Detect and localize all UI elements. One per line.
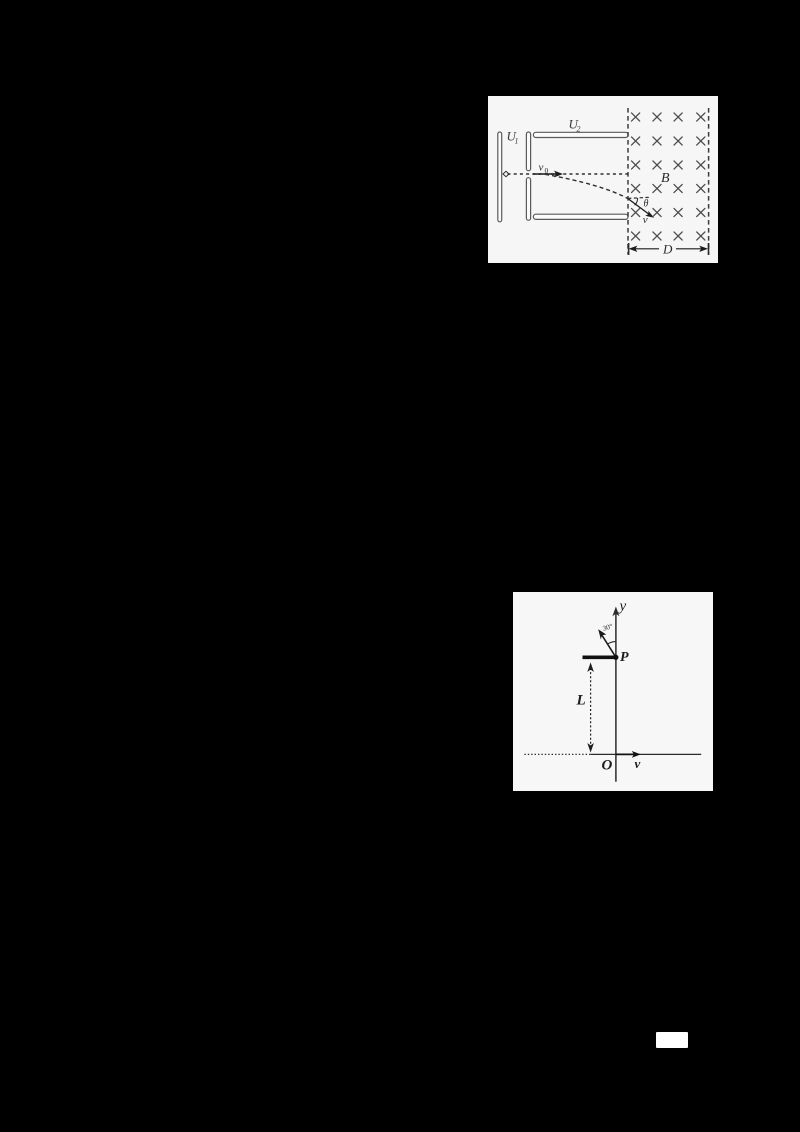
L dimension double arrow (dashed) [590,667,592,745]
angle arc 30deg [608,641,616,644]
svg-text:2: 2 [577,124,581,133]
svg-text:v: v [643,214,648,226]
v0 arrow [533,173,558,175]
horizontal reference tick at entry point [628,197,650,198]
velocity v arrow into field [628,199,650,215]
svg-text:v: v [634,756,640,771]
field region right dashed boundary [708,108,710,255]
figure 1: accelerating/deflecting plates with magnetic field region [488,96,718,263]
deflecting plate top (U2) [533,132,628,137]
angle arc theta [635,198,638,205]
velocity arrow at 30 degrees from y-axis [602,634,616,657]
svg-text:L: L [575,692,585,708]
B-field cross grid (4 cols x 6 rows) [631,113,704,240]
point P [613,654,618,659]
small white label box bottom-right [656,1032,688,1049]
field region left dashed boundary [627,108,629,255]
svg-text:P: P [620,650,629,665]
svg-text:B: B [661,171,670,186]
figure 2: projectile from platform P on y-axis [513,591,713,790]
dimension D double arrow [634,248,659,250]
dashed beam axis [508,173,629,175]
svg-text:O: O [601,757,612,773]
y-axis [615,612,617,782]
diamond source marker [503,171,509,176]
svg-text:D: D [662,242,673,257]
svg-text:1: 1 [515,136,519,145]
split plate lower segment [526,178,530,221]
v arrow on x-axis [616,753,635,755]
svg-text:v: v [539,161,544,173]
svg-text:y: y [618,598,627,614]
deflecting plate bottom [533,214,628,219]
dashed trajectory curve [545,174,628,198]
plate U1 (left vertical plate) [498,132,502,222]
D dimension left end tick [628,243,630,255]
platform bar at P [583,655,617,659]
x-axis dotted left part [524,753,590,755]
x-axis solid right part [591,753,702,755]
svg-text:0: 0 [545,166,549,175]
D dimension right end tick [707,243,709,255]
split plate upper segment [526,132,530,171]
svg-text:θ: θ [643,199,648,210]
